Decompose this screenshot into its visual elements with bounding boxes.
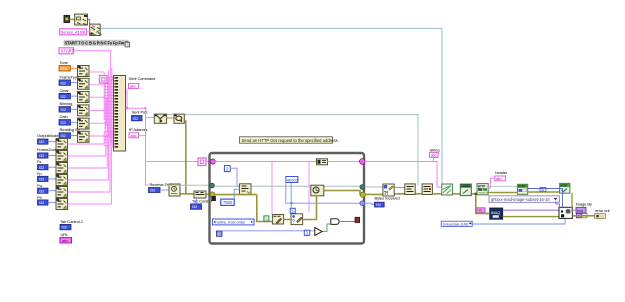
svg-text:I32: I32 <box>39 140 44 144</box>
wires controls col2 to format nodes <box>48 142 56 203</box>
node imaq-readimage B <box>559 207 572 218</box>
wire violet dropdown down <box>556 201 560 208</box>
stop terminal <box>355 217 360 222</box>
svg-text:I32: I32 <box>133 117 138 121</box>
wire pink branch down x309 <box>308 162 310 213</box>
svg-text:I32: I32 <box>376 203 381 207</box>
svg-text:i: i <box>218 231 219 236</box>
wire purple B to image-by <box>572 209 576 211</box>
wire 2 to E <box>230 168 239 186</box>
svg-text:String: String <box>430 148 440 153</box>
constant http pink <box>476 208 485 213</box>
tunnel blue right <box>360 201 365 206</box>
wire teal into loop <box>163 184 210 186</box>
svg-text:http: http <box>477 209 483 213</box>
node open-config small pink square 2 <box>198 158 206 166</box>
node small purple pair <box>576 214 587 218</box>
badge 5 blue <box>290 208 295 213</box>
control Fw <box>37 183 48 193</box>
indicator header <box>495 170 508 181</box>
svg-text:abc: abc <box>431 154 437 158</box>
node current-vi-path P1 <box>64 16 70 23</box>
wire string between http nodes <box>488 185 517 187</box>
wire pink stubs into concat terminals <box>104 78 114 146</box>
svg-text:HTTP: HTTP <box>518 184 525 188</box>
wire olive branch down to imaq row <box>476 194 490 214</box>
indicator error out <box>595 208 611 219</box>
wire blue bytes icon to next <box>393 187 405 189</box>
node match-pattern <box>422 184 432 195</box>
control Tab Control <box>191 198 212 209</box>
node merge-errors D <box>194 191 206 198</box>
svg-text:40000: 40000 <box>287 177 299 182</box>
constant 7500 <box>221 199 234 205</box>
node http-read <box>517 184 527 194</box>
svg-text:I32: I32 <box>61 121 66 125</box>
node comparator <box>315 228 322 236</box>
indicator String <box>430 148 440 158</box>
control Clear <box>59 88 71 99</box>
svg-text:I32: I32 <box>61 134 66 138</box>
svg-text:abc: abc <box>130 84 136 88</box>
control FrameType <box>59 74 80 85</box>
wire pink across loop <box>215 161 317 163</box>
control Reading Speed <box>59 127 80 138</box>
junction dot blue <box>290 202 292 204</box>
shift register left dark <box>211 196 216 201</box>
wires controls col1 to format nodes <box>71 68 78 135</box>
tunnel teal right <box>360 185 365 190</box>
iteration terminal i <box>217 231 223 236</box>
node ip-to-string B <box>174 114 184 123</box>
wire blue tunnel to bytes received <box>365 203 375 204</box>
svg-text:Gain: Gain <box>60 114 68 119</box>
wire A to B <box>167 117 174 119</box>
node to-uppercase small pink square <box>100 76 114 84</box>
svg-text:I32: I32 <box>61 95 66 99</box>
svg-text:OutputMode: OutputMode <box>37 133 59 138</box>
control Ph <box>37 195 48 205</box>
svg-text:Sent Command: Sent Command <box>129 76 156 81</box>
wire 40000 down <box>290 183 292 209</box>
wire pink from right tunnel to String and down <box>365 162 442 188</box>
wire concat output main pink to icon A <box>126 107 146 109</box>
node format-into-string F1..F6 column1 <box>78 66 90 143</box>
svg-text:Ph: Ph <box>37 195 42 200</box>
control Fp <box>37 171 48 181</box>
wire olive typecast to H <box>284 219 291 221</box>
node tcp-read H <box>291 214 303 226</box>
badge 32 blue <box>540 187 546 191</box>
svg-text:IMAQ: IMAQ <box>491 211 501 215</box>
control Receive Time <box>149 182 174 193</box>
svg-text:I32: I32 <box>39 201 44 205</box>
wire purple imaq to B <box>503 209 559 211</box>
wire pink bus col2 <box>68 132 114 204</box>
junction dot <box>145 107 147 109</box>
control Gain <box>59 114 71 125</box>
svg-text:I32: I32 <box>39 178 44 182</box>
wire olive U to right tunnel <box>324 191 362 195</box>
tunnel teal left <box>210 183 215 188</box>
tunnel olive left <box>210 192 215 197</box>
control Binning <box>59 101 72 112</box>
svg-text:I32: I32 <box>61 108 66 112</box>
wire concat output to sent command <box>126 88 128 108</box>
node imaq-create <box>490 208 503 219</box>
wire teal right tunnel to bytes icon <box>365 186 383 188</box>
node concatenate-strings U1 <box>114 76 126 152</box>
control Fs <box>37 159 48 170</box>
svg-text:I32: I32 <box>39 166 44 170</box>
svg-text:gRxxx-read-image-subset-16-16: gRxxx-read-image-subset-16-16 <box>491 197 550 202</box>
indicator Sent Command <box>129 76 156 88</box>
node unflatten <box>460 184 471 196</box>
svg-text:abc: abc <box>62 239 68 243</box>
wire START to concat <box>74 51 114 77</box>
indicator Sent Port <box>132 110 149 121</box>
svg-text:header: header <box>495 170 508 175</box>
svg-text:I32: I32 <box>192 205 197 209</box>
node concat-url small <box>317 159 328 165</box>
wire pink bus col1 <box>89 68 112 145</box>
node tiny-gray <box>125 42 130 47</box>
indicator IP Address <box>129 127 148 138</box>
wire pink down to loop and receive row <box>146 108 149 185</box>
constant Sensor_43.INI <box>60 29 90 35</box>
svg-text:IP Address: IP Address <box>129 127 148 132</box>
wire olive between http nodes <box>486 192 518 194</box>
node string-subset <box>405 184 415 195</box>
wire blue http-read down to B <box>527 189 562 208</box>
node string-to-bytearray green <box>442 184 453 195</box>
node http-header <box>477 184 488 195</box>
node wait-until U <box>311 185 324 196</box>
svg-text:I32: I32 <box>39 189 44 193</box>
control URL <box>60 232 72 243</box>
wire C to D olive <box>180 193 194 195</box>
node http-check green <box>560 183 570 193</box>
svg-text:5: 5 <box>291 208 293 213</box>
wire olive E down to typecast <box>257 195 273 222</box>
svg-text:Greyscale (U8): Greyscale (U8) <box>443 222 469 226</box>
wire path to build-path <box>70 19 75 21</box>
constant START <box>59 48 75 54</box>
label comment send-http <box>240 137 339 143</box>
control Tab Control 2 <box>60 219 84 230</box>
node bytes-at-port <box>383 184 394 197</box>
svg-text:?: ? <box>292 220 295 226</box>
tunnel olive right <box>360 192 365 197</box>
wire or to stop <box>339 221 355 223</box>
tunnel pink left <box>210 159 215 164</box>
svg-text:I32: I32 <box>39 154 44 158</box>
svg-text:error out: error out <box>595 208 610 213</box>
node string-to-ip A <box>154 114 166 123</box>
node typecast STR <box>272 215 283 225</box>
constant native-host-order <box>212 219 254 225</box>
indicator Image By <box>576 202 592 214</box>
svg-text:Send an HTTP Get request to th: Send an HTTP Get request to the specifie… <box>242 138 339 143</box>
svg-text:Img: Img <box>577 209 583 213</box>
wire 7500 blue right to tunnel <box>234 189 239 199</box>
wire teal refnum long <box>160 115 418 186</box>
node http-get E <box>240 184 252 195</box>
label START T O C ... title <box>64 40 131 46</box>
control FrameZoom <box>37 147 59 158</box>
wire build-path to config-read <box>88 20 90 25</box>
svg-text:Fw: Fw <box>37 183 42 188</box>
constant 2 <box>224 166 230 172</box>
svg-text:abc: abc <box>131 134 137 138</box>
control OutputMode <box>37 133 59 144</box>
node format-into-string column2 <box>56 139 68 210</box>
svg-text:abc: abc <box>496 177 502 181</box>
svg-text:native, host order: native, host order <box>216 220 247 225</box>
wire comparator to or <box>322 224 330 231</box>
wire B olive down to D <box>184 121 194 194</box>
dropdown greyscale-u8 <box>441 221 472 226</box>
svg-text:G: G <box>265 216 268 221</box>
svg-text:I32: I32 <box>61 81 66 85</box>
svg-text:Clear: Clear <box>60 88 70 93</box>
svg-text:URL: URL <box>61 232 70 237</box>
node wait-ms C <box>169 184 180 196</box>
wire D to loop tunnel olive <box>206 193 213 195</box>
constant 3 <box>304 230 309 235</box>
svg-text:HTTP: HTTP <box>560 183 567 187</box>
svg-text:DBL: DBL <box>61 67 68 71</box>
wire blue greyscale to B <box>472 219 565 225</box>
dropdown read-image-subset <box>489 196 559 203</box>
wire teal inside loop <box>215 185 360 187</box>
wire olive B to error out <box>572 215 594 217</box>
node G-cast green <box>264 216 269 221</box>
svg-text:Sensor_43.INI: Sensor_43.INI <box>61 30 85 35</box>
node config-read-key P3 <box>90 24 102 35</box>
structure while-loop <box>210 153 365 244</box>
wire pink to right tunnel <box>328 161 361 163</box>
svg-text:FrameType: FrameType <box>60 74 80 79</box>
svg-text:Binning: Binning <box>60 101 73 106</box>
svg-text:Tone: Tone <box>60 60 69 65</box>
svg-text:?!: ?! <box>384 191 389 197</box>
wire pink into loop <box>206 161 211 163</box>
wire olive H up to U and right <box>303 196 317 220</box>
wire olive from http-check down <box>571 193 573 213</box>
wire pink header down <box>486 178 494 188</box>
svg-text:START: START <box>61 48 75 53</box>
svg-text:Image By: Image By <box>576 202 592 207</box>
indicator Bytes received <box>375 196 400 208</box>
tunnel pink right <box>360 159 366 165</box>
svg-text:HTTP: HTTP <box>478 184 487 188</box>
wire cyan INI path <box>100 29 442 185</box>
wire olive row right of loop <box>415 193 422 195</box>
svg-text:START T O C B G R N F Fs Fp Fw: START T O C B G R N F Fs Fp Fw Ph <box>65 40 131 45</box>
svg-text:I32: I32 <box>150 189 155 193</box>
wire blue bottom row <box>222 230 315 232</box>
svg-text:I32: I32 <box>62 226 67 230</box>
wire olive from tunnel to E <box>215 194 257 196</box>
svg-text:Tab Control 2: Tab Control 2 <box>60 219 84 224</box>
svg-text:7500: 7500 <box>223 200 233 205</box>
node build-path P2 <box>75 14 88 25</box>
node or-gate <box>331 219 339 225</box>
control Tone <box>59 60 71 71</box>
wire pink branch down x251.5 <box>271 162 273 215</box>
svg-text:Fs: Fs <box>37 159 41 164</box>
constant 40000 <box>286 177 299 183</box>
